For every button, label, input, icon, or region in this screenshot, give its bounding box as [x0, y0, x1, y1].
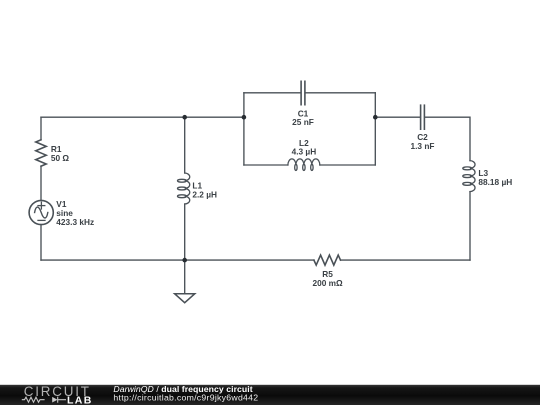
wire L3 bottom to bottom rail	[469, 192, 471, 261]
wire L1 bottom	[184, 204, 186, 260]
svg-text:LAB: LAB	[67, 394, 93, 405]
wire bottom rail left segment	[41, 259, 314, 261]
node junction at tank right	[373, 115, 378, 120]
inductor L1	[177, 173, 189, 204]
svg-text:423.3 kHz: 423.3 kHz	[56, 217, 94, 227]
tank top edge right of C1	[306, 92, 376, 94]
capacitor C1	[301, 81, 305, 104]
svg-text:50 Ω: 50 Ω	[51, 153, 70, 163]
resistor R1	[36, 140, 46, 166]
capacitor C2	[421, 105, 425, 129]
node junction at L1 top	[182, 115, 187, 120]
ground	[175, 294, 195, 303]
node junction at ground	[182, 258, 187, 263]
wire ground stem	[184, 260, 186, 294]
svg-text:88.18 µH: 88.18 µH	[478, 177, 512, 187]
wire top horizontal from R1 corner to tank left	[41, 116, 244, 118]
svg-text:200 mΩ: 200 mΩ	[313, 278, 344, 288]
footer bar	[0, 385, 540, 405]
wire left vertical upper (corner to R1 top)	[40, 117, 42, 140]
tank top edge left of C1	[244, 92, 301, 94]
inductor L3	[463, 161, 475, 192]
tank bottom edge right	[320, 164, 375, 166]
node junction at tank left	[242, 115, 247, 120]
wire tank right junction to C2	[375, 116, 420, 118]
svg-text:25 nF: 25 nF	[292, 117, 314, 127]
tank rectangle left edge	[243, 93, 245, 165]
svg-text:1.3 nF: 1.3 nF	[411, 141, 435, 151]
inductor L2	[288, 159, 320, 171]
logo schematic glyph: resistor and diode	[22, 397, 66, 403]
wire L1 branch top	[184, 117, 186, 173]
svg-text:http://circuitlab.com/c9r9jky6: http://circuitlab.com/c9r9jky6wd442	[113, 393, 258, 403]
tank right edge	[374, 93, 376, 165]
resistor R5	[314, 255, 341, 265]
svg-text:4.3 µH: 4.3 µH	[292, 147, 317, 157]
wire bottom rail right segment	[341, 259, 471, 261]
wire R1 bottom to V1 top	[40, 166, 42, 200]
wire V1 bottom to bottom rail	[40, 225, 42, 261]
voltage source V1	[29, 200, 53, 224]
svg-text:2.2 µH: 2.2 µH	[192, 190, 217, 200]
tank bottom edge left	[244, 164, 288, 166]
wire C2 to right corner	[425, 117, 470, 160]
